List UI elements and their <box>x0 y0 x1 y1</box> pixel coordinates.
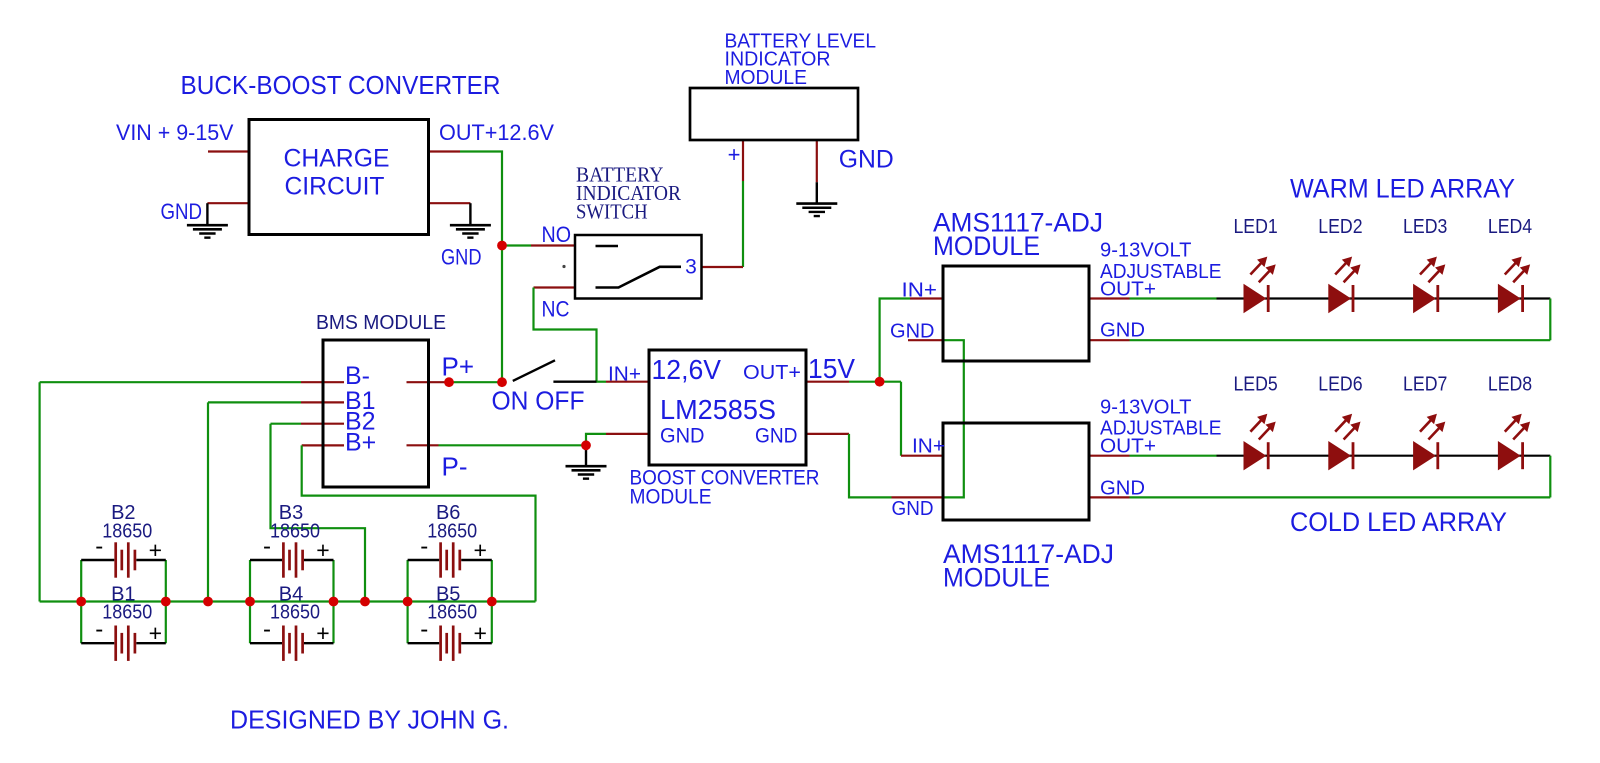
svg-text:LED6: LED6 <box>1318 374 1362 396</box>
svg-text:MODULE: MODULE <box>933 231 1040 261</box>
svg-text:GND: GND <box>892 498 934 520</box>
svg-text:15V: 15V <box>808 353 855 384</box>
svg-text:GND: GND <box>441 245 482 270</box>
svg-text:OUT+: OUT+ <box>1100 436 1156 458</box>
svg-text:18650: 18650 <box>102 521 152 543</box>
svg-text:B-: B- <box>345 362 370 390</box>
svg-text:LED5: LED5 <box>1233 374 1277 396</box>
svg-text:IN+: IN+ <box>902 280 938 302</box>
svg-text:BUCK-BOOST CONVERTER: BUCK-BOOST CONVERTER <box>181 70 501 100</box>
svg-text:9-13VOLT: 9-13VOLT <box>1100 240 1192 262</box>
svg-text:P-: P- <box>442 452 468 482</box>
svg-text:P+: P+ <box>442 352 475 382</box>
svg-text:VIN + 9-15V: VIN + 9-15V <box>116 120 234 145</box>
svg-text:WARM LED ARRAY: WARM LED ARRAY <box>1290 174 1515 204</box>
svg-text:NC: NC <box>542 297 570 322</box>
svg-text:GND: GND <box>660 425 705 448</box>
svg-text:MODULE: MODULE <box>943 563 1050 593</box>
svg-text:IN+: IN+ <box>608 364 641 386</box>
svg-text:OUT+12.6V: OUT+12.6V <box>439 120 554 145</box>
svg-text:18650: 18650 <box>270 602 320 624</box>
svg-text:LED8: LED8 <box>1488 374 1532 396</box>
svg-text:B+: B+ <box>345 429 376 457</box>
svg-text:IN+: IN+ <box>912 436 945 458</box>
svg-text:+: + <box>473 620 486 646</box>
svg-text:3: 3 <box>685 256 697 279</box>
svg-text:LED3: LED3 <box>1403 216 1447 238</box>
svg-text:CHARGE: CHARGE <box>284 145 390 173</box>
svg-text:COLD LED ARRAY: COLD LED ARRAY <box>1290 507 1507 537</box>
svg-text:OUT+: OUT+ <box>743 362 801 384</box>
svg-text:SWITCH: SWITCH <box>576 200 648 224</box>
svg-text:MODULE: MODULE <box>630 486 712 509</box>
svg-text:LED1: LED1 <box>1233 216 1277 238</box>
svg-text:18650: 18650 <box>427 602 477 624</box>
svg-text:NO: NO <box>542 222 572 247</box>
svg-text:18650: 18650 <box>270 521 320 543</box>
svg-text:BMS MODULE: BMS MODULE <box>316 312 446 334</box>
svg-text:+: + <box>316 620 329 646</box>
svg-text:9-13VOLT: 9-13VOLT <box>1100 397 1192 419</box>
svg-text:GND: GND <box>839 146 894 174</box>
svg-text:+: + <box>728 142 741 167</box>
svg-text:18650: 18650 <box>427 521 477 543</box>
svg-text:LED7: LED7 <box>1403 374 1447 396</box>
svg-text:GND: GND <box>1100 320 1145 342</box>
svg-text:MODULE: MODULE <box>725 67 808 89</box>
svg-text:LED2: LED2 <box>1318 216 1362 238</box>
svg-text:GND: GND <box>1100 478 1145 500</box>
svg-text:OUT+: OUT+ <box>1100 279 1156 301</box>
svg-text:DESIGNED BY JOHN G.: DESIGNED BY JOHN G. <box>230 705 509 735</box>
svg-text:GND: GND <box>890 321 935 343</box>
svg-text:CIRCUIT: CIRCUIT <box>285 173 385 201</box>
svg-text:GND: GND <box>755 425 798 448</box>
svg-text:GND: GND <box>161 199 203 224</box>
svg-text:18650: 18650 <box>102 602 152 624</box>
svg-text:LM2585S: LM2585S <box>660 394 776 425</box>
svg-text:12,6V: 12,6V <box>652 354 722 385</box>
svg-text:LED4: LED4 <box>1488 216 1532 238</box>
svg-text:ON OFF: ON OFF <box>492 386 585 416</box>
svg-text:+: + <box>149 620 162 646</box>
